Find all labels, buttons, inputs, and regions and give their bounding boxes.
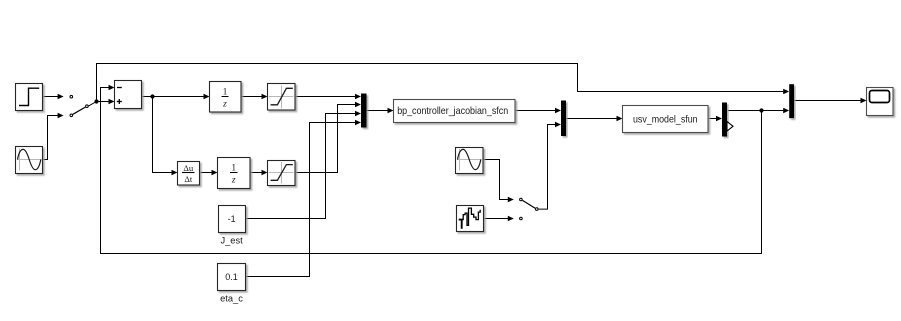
wire saturation2 to mux1 in2 <box>295 105 355 173</box>
wire unit delay1 to saturation1 <box>241 96 262 98</box>
wire derivative to unit delay2 <box>200 172 212 174</box>
wire demux out1 to mux3 in2 <box>728 110 784 112</box>
svg-text:J_est: J_est <box>220 235 243 245</box>
wire switch1 output diagonal <box>89 102 97 106</box>
svg-text:Δt: Δt <box>184 174 193 184</box>
wire saturation1 to mux1 in1 <box>295 96 355 98</box>
manual switch 1 <box>70 95 88 116</box>
svg-text:z: z <box>231 176 236 186</box>
mux2 two input <box>561 101 566 137</box>
sine wave source block 2 <box>456 148 484 174</box>
node branch dot reference <box>94 99 98 103</box>
wire sum output to unit delay <box>142 96 204 98</box>
wire sine2 to switch2 <box>483 160 508 200</box>
node branch dot feedback <box>759 108 763 112</box>
wire mux3 to scope <box>794 100 861 102</box>
svg-text:eta_c: eta_c <box>220 293 243 303</box>
wire feedback bottom loop to sum minus <box>101 88 762 254</box>
random stair source block <box>457 206 484 232</box>
svg-text:Δu: Δu <box>183 163 194 173</box>
saturation block 1 <box>268 84 296 111</box>
svg-text:bp_controller_jacobian_sfcn: bp_controller_jacobian_sfcn <box>397 105 508 117</box>
mux3 two input <box>789 84 794 118</box>
step source block <box>16 84 43 111</box>
wire mux2 to usv_model <box>566 118 617 120</box>
saturation block 2 <box>268 161 296 186</box>
wire signal builder to switch2 <box>484 218 509 220</box>
sum block <box>115 81 142 109</box>
wire mux1 to bp_controller <box>367 110 388 112</box>
svg-text:z: z <box>222 100 227 110</box>
wire step to switch1 <box>43 96 58 98</box>
demux unconnected out2 hollow arrow <box>727 122 733 132</box>
derivative block du/dt <box>178 162 200 186</box>
wire gain J_est to mux1 in3 <box>246 114 356 219</box>
wire reference feedforward top loop <box>97 64 784 102</box>
wire usv_model to demux <box>708 118 716 120</box>
demux <box>722 103 727 137</box>
wire branch down to derivative <box>153 97 172 173</box>
wire constant eta_c to mux1 in4 <box>246 123 356 277</box>
wire unit delay2 to saturation2 <box>250 172 262 174</box>
s-function bp_controller_jacobian_sfcn <box>394 100 516 123</box>
node branch dot error <box>150 94 154 98</box>
sine wave source block <box>16 147 43 174</box>
mux1 four input <box>361 94 367 128</box>
wire sine1 to switch1 <box>43 116 58 160</box>
s-function usv_model_sfun <box>623 106 709 133</box>
scope block <box>867 88 894 116</box>
unit delay block 1/z row1 <box>210 82 242 113</box>
wire to sum plus input <box>97 101 109 103</box>
unit delay block 1/z row2 <box>218 158 251 189</box>
constant eta_c value 0.1 <box>218 264 246 291</box>
wire bp_controller to mux2 in1 <box>515 110 555 112</box>
gain J_est value -1 <box>219 206 246 233</box>
svg-text:usv_model_sfun: usv_model_sfun <box>633 114 698 126</box>
svg-text:0.1: 0.1 <box>225 272 238 282</box>
wire switch2 to mux2 in2 <box>539 125 556 210</box>
manual switch 2 <box>520 198 538 220</box>
svg-text:-1: -1 <box>228 214 236 224</box>
